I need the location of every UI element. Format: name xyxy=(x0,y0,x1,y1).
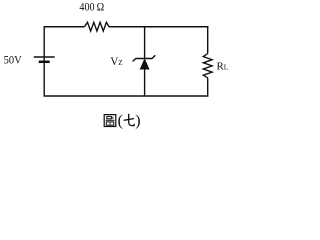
zener diode D1 anode triangle xyxy=(140,59,149,69)
wire top right segment xyxy=(109,26,208,28)
value label 400 ohm xyxy=(79,0,104,14)
resistor R1 400ohm xyxy=(85,22,109,31)
caption close paren xyxy=(135,112,140,129)
wire zener branch top xyxy=(144,27,146,59)
wire right branch top xyxy=(207,26,209,54)
wire zener branch bottom xyxy=(144,69,146,97)
zener diode D1 (cathode bar with bent ends) xyxy=(133,55,156,61)
wire bottom xyxy=(44,95,209,97)
svg-text:50V: 50V xyxy=(4,53,22,67)
label RL xyxy=(217,60,229,72)
resistor RL xyxy=(203,54,212,78)
wire right branch bottom xyxy=(207,78,209,97)
svg-text:L: L xyxy=(224,62,229,71)
value label 50V xyxy=(4,53,22,67)
label VZ xyxy=(110,56,122,68)
battery V1 xyxy=(34,57,55,62)
svg-text:(: ( xyxy=(118,112,123,129)
caption glyph TU (figure) xyxy=(104,115,116,127)
caption open paren xyxy=(118,112,123,129)
svg-text:Z: Z xyxy=(118,59,122,67)
wire left branch (to battery) xyxy=(43,26,45,97)
svg-text:): ) xyxy=(135,112,140,129)
wire top left segment xyxy=(44,26,85,28)
svg-text:400 Ω: 400 Ω xyxy=(79,0,104,14)
caption glyph QI (seven) xyxy=(124,114,135,126)
